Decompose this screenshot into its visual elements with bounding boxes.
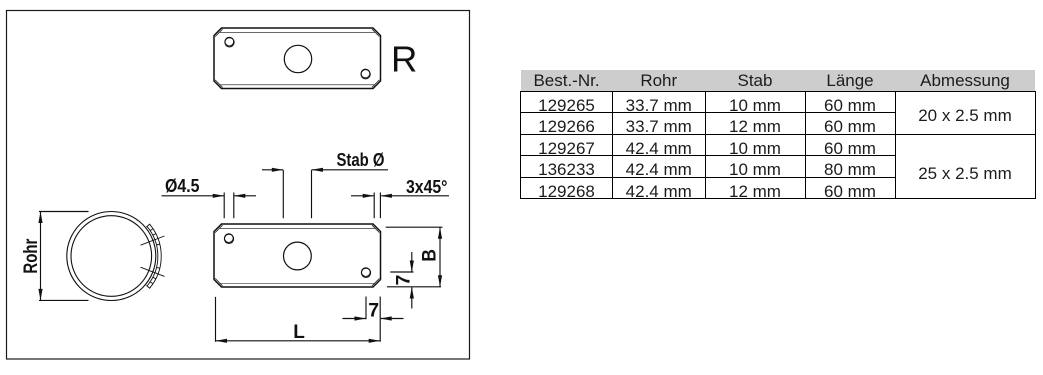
dimension 7 bottom <box>343 297 404 342</box>
svg-text:7: 7 <box>368 299 379 321</box>
dimension B <box>386 227 443 287</box>
plate bottom chamfer inner lines <box>215 225 379 286</box>
tube inner circle <box>71 216 152 297</box>
tube outer circle <box>67 212 156 301</box>
svg-text:7: 7 <box>392 275 414 286</box>
plate bottom hole bottom-right <box>361 268 370 277</box>
plate R hole bottom-right <box>361 70 370 79</box>
plate R chamfer inner lines <box>215 29 379 87</box>
svg-text:Rohr: Rohr <box>20 238 42 273</box>
border frame <box>7 11 470 360</box>
svg-text:L: L <box>293 322 305 343</box>
dimension L <box>216 297 381 342</box>
svg-text:R: R <box>391 38 417 79</box>
plate R center hole <box>284 45 311 72</box>
plate R top view <box>214 28 381 89</box>
plate bottom view <box>214 224 381 287</box>
clamp sleeve arcs <box>141 224 165 289</box>
dimension 7 right <box>390 252 413 309</box>
dimension Rohr <box>39 212 89 301</box>
svg-text:B: B <box>419 249 440 262</box>
plate bottom hole top-left <box>224 234 233 243</box>
svg-text:Ø4.5: Ø4.5 <box>165 175 200 196</box>
svg-text:3x45°: 3x45° <box>406 176 448 197</box>
plate bottom center hole <box>284 242 312 270</box>
data table <box>520 70 1036 199</box>
plate R hole top-left <box>225 38 234 47</box>
svg-text:Stab Ø: Stab Ø <box>337 149 385 170</box>
